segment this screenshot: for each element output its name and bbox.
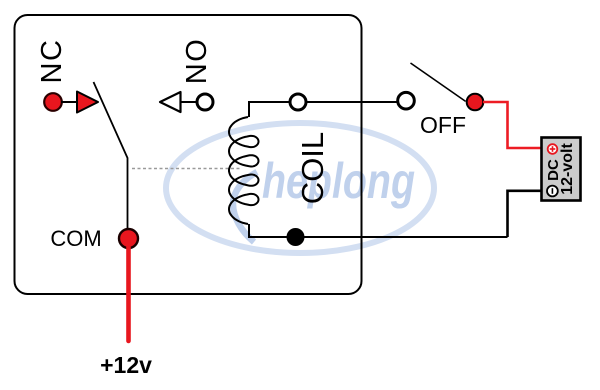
coil terminal bottom black dot bbox=[287, 228, 305, 246]
svg-text:OFF: OFF bbox=[420, 112, 466, 138]
wire coil top bbox=[249, 102, 290, 117]
watermark logo opening paren swoosh bbox=[233, 172, 257, 242]
terminal NO open circle bbox=[197, 94, 213, 110]
OFF switch terminal open circle bbox=[398, 92, 415, 109]
battery minus terminal symbol bbox=[547, 186, 558, 197]
OFF switch terminal red dot bbox=[467, 94, 484, 111]
wire coil top to OFF switch bbox=[306, 101, 398, 103]
OFF switch blade bbox=[411, 63, 466, 101]
inductor coil L1 windings bbox=[229, 117, 259, 224]
battery plus terminal symbol bbox=[548, 144, 558, 154]
wire +12v supply (red) bbox=[126, 247, 131, 341]
terminal COM red dot bbox=[119, 229, 138, 248]
relay body border bbox=[15, 15, 362, 294]
switch blade armature bbox=[94, 82, 128, 230]
svg-text:+12v: +12v bbox=[100, 352, 152, 378]
relay body outline bbox=[15, 15, 362, 294]
dashed actuation line bbox=[132, 168, 242, 170]
svg-text:NC: NC bbox=[36, 39, 68, 84]
wire switch to battery plus (red) bbox=[483, 102, 541, 148]
svg-text:COIL: COIL bbox=[295, 132, 330, 204]
svg-text:NO: NO bbox=[181, 38, 213, 85]
wire NO arrow to terminal bbox=[181, 101, 198, 103]
battery BT1 body bbox=[542, 138, 581, 201]
svg-text:heplong: heplong bbox=[262, 153, 415, 209]
wire NC dot to arrow bbox=[61, 101, 77, 103]
svg-text:COM: COM bbox=[50, 226, 101, 251]
coil terminal top open circle bbox=[290, 94, 306, 110]
svg-text:12-volt: 12-volt bbox=[559, 143, 576, 195]
watermark logo ellipse swoosh bbox=[166, 123, 434, 253]
wire coil bottom bbox=[249, 224, 508, 237]
NC contact arrow (red triangle) bbox=[77, 92, 98, 113]
NO contact arrow (open triangle) bbox=[160, 92, 181, 112]
wire battery minus to coil (black) bbox=[508, 191, 542, 237]
terminal NC red dot bbox=[44, 93, 62, 111]
